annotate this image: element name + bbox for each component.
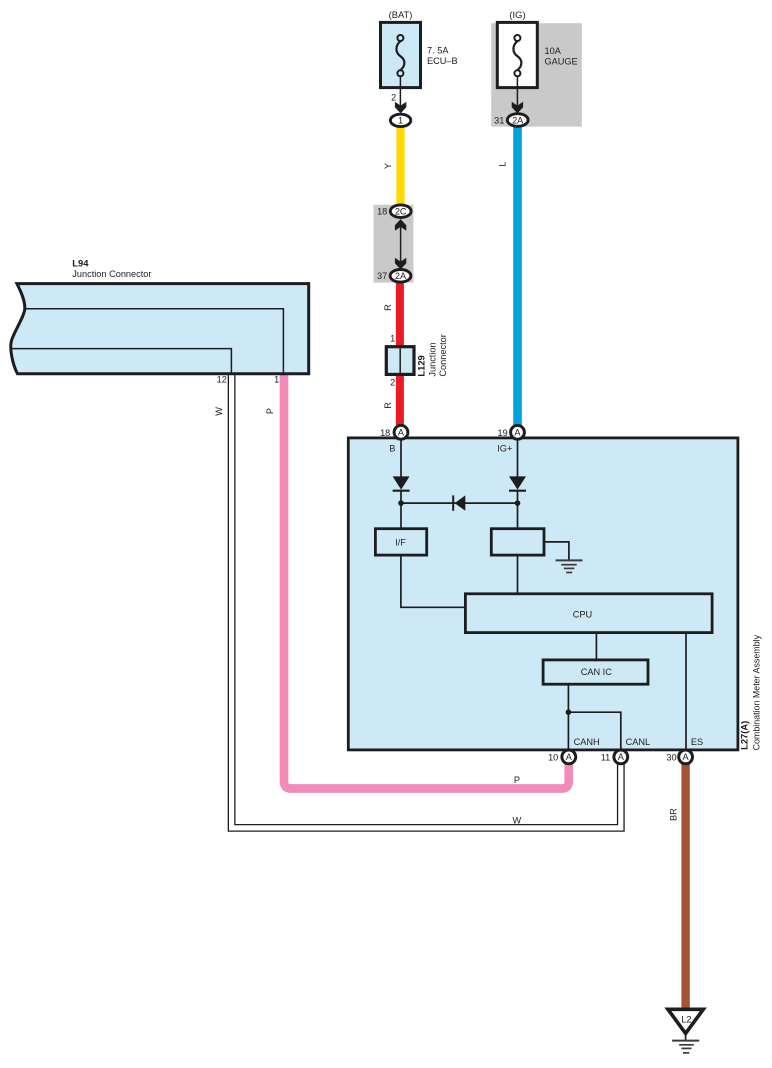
svg-text:10: 10: [548, 753, 558, 763]
junction dot right: [515, 500, 521, 506]
svg-text:W: W: [512, 816, 521, 826]
svg-text:B: B: [389, 443, 395, 453]
svg-text:19: 19: [497, 428, 507, 438]
wire regulator to CPU: [517, 555, 519, 594]
svg-text:Connector: Connector: [438, 334, 448, 376]
svg-text:BR: BR: [669, 808, 679, 821]
fuse GAUGE (IG): [497, 9, 577, 88]
svg-text:CANL: CANL: [626, 737, 651, 747]
block CPU: [465, 594, 712, 633]
svg-text:31: 31: [494, 115, 504, 125]
wire W (white, L94 pin 12 to meter pin 11): [232, 375, 621, 828]
connector 2A (IG): [507, 114, 528, 127]
svg-text:11: 11: [601, 753, 611, 763]
connector 1 (ellipse): [390, 114, 410, 126]
svg-text:CPU: CPU: [573, 609, 592, 619]
junction connector L94: [11, 257, 309, 384]
svg-text:GAUGE: GAUGE: [545, 56, 578, 66]
svg-text:2A: 2A: [512, 115, 524, 125]
svg-text:Combination Meter Assembly: Combination Meter Assembly: [752, 634, 762, 750]
arrow into connector 2A: [512, 102, 523, 114]
pin 30 connector A: [666, 750, 692, 764]
svg-text:(BAT): (BAT): [389, 9, 413, 20]
L94 internal bus to pin 1: [25, 309, 284, 374]
wire P (pink, L94 pin 1 to meter pin 10): [284, 375, 569, 789]
svg-text:ES: ES: [691, 737, 703, 747]
svg-text:1: 1: [398, 116, 403, 126]
svg-text:P: P: [514, 775, 520, 785]
block regulator (unlabeled): [491, 529, 544, 555]
arrow into connector 1: [395, 102, 406, 114]
svg-text:7. 5A: 7. 5A: [427, 46, 449, 56]
svg-text:12: 12: [217, 375, 227, 385]
connector 2A (splice): [390, 270, 411, 283]
double arrow between 2C and 2A: [395, 219, 406, 269]
svg-text:30: 30: [666, 753, 676, 763]
diode D2 (under pin 19): [509, 476, 526, 490]
wire fuse IG output: [516, 76, 518, 106]
connector 2C: [390, 205, 411, 218]
cross wire between branches: [401, 502, 518, 504]
svg-text:10A: 10A: [545, 46, 562, 56]
pin 11 connector A: [601, 750, 628, 764]
wire CPU to ES pin: [685, 633, 687, 750]
svg-text:Y: Y: [383, 163, 393, 169]
wire I/F to CPU: [401, 555, 466, 607]
wire R (red, splice 2A to meter pin 18): [396, 282, 404, 428]
wire diode D1 to I/F: [400, 491, 402, 529]
combination meter assembly L27(A) box: [348, 438, 738, 750]
fuse ECU-B (BAT): [381, 9, 458, 88]
svg-text:Junction: Junction: [427, 342, 437, 376]
svg-text:2A: 2A: [395, 271, 407, 281]
svg-text:A: A: [398, 428, 405, 438]
wire fuse BAT output: [399, 76, 401, 106]
node IG+ wire (pin 19 down to diode): [517, 438, 519, 477]
ground L2: [668, 1009, 703, 1053]
svg-text:R: R: [383, 402, 393, 409]
svg-text:2: 2: [390, 378, 395, 388]
svg-text:Junction Connector: Junction Connector: [72, 269, 151, 279]
svg-text:37: 37: [377, 271, 387, 281]
svg-text:2C: 2C: [395, 207, 407, 217]
svg-text:A: A: [566, 752, 573, 762]
svg-text:18: 18: [380, 428, 390, 438]
svg-text:L: L: [497, 162, 507, 167]
svg-text:A: A: [618, 752, 625, 762]
wire branch to CANL pin: [568, 712, 620, 750]
svg-text:ECU–B: ECU–B: [427, 56, 458, 66]
svg-text:R: R: [383, 304, 393, 311]
node B wire (pin 18 down to diode): [400, 438, 402, 477]
svg-text:1: 1: [274, 375, 279, 385]
gray harness block (2C/2A splice background): [374, 205, 414, 283]
wire Y (yellow, fuse ECU-B to splice 2C): [396, 127, 404, 207]
block I/F: [375, 529, 426, 555]
svg-text:L94: L94: [72, 257, 89, 268]
wire CAN IC to CANH pin: [567, 684, 569, 750]
svg-text:CAN IC: CAN IC: [581, 667, 613, 677]
L94 internal bus to pin 12: [11, 349, 231, 374]
pin 10 connector A: [548, 750, 576, 764]
wire BR (brown, meter pin 30 to ground L2): [681, 764, 689, 1009]
svg-text:A: A: [683, 752, 690, 762]
svg-text:CANH: CANH: [574, 737, 600, 747]
pin 18 connector A: [380, 425, 408, 439]
pin 19 connector A: [497, 425, 524, 439]
block CAN IC: [543, 660, 648, 684]
svg-text:18: 18: [377, 206, 387, 216]
svg-text:I/F: I/F: [395, 537, 406, 547]
wire diode D2 to regulator box: [517, 491, 519, 529]
svg-text:W: W: [214, 407, 224, 416]
internal ground branch: [544, 542, 583, 573]
junction dot left: [398, 500, 404, 506]
svg-text:L27(A): L27(A): [739, 721, 750, 750]
svg-text:IG+: IG+: [497, 443, 512, 453]
svg-text:L129: L129: [416, 355, 427, 376]
svg-text:(IG): (IG): [509, 9, 525, 20]
svg-text:2: 2: [391, 93, 396, 103]
svg-text:L2: L2: [681, 1015, 691, 1025]
wire CPU to CAN IC: [595, 633, 597, 660]
gray harness block (IG fuse background): [491, 23, 582, 126]
diode D3 (cross, pointing left): [453, 495, 465, 510]
junction dot CAN: [566, 709, 572, 715]
wire L (blue, fuse GAUGE to meter pin 19): [513, 126, 522, 427]
svg-text:1: 1: [390, 333, 395, 343]
svg-text:P: P: [265, 408, 275, 414]
junction connector L129: [386, 333, 448, 387]
svg-text:A: A: [514, 428, 521, 438]
diode D1 (under pin 18): [393, 476, 410, 490]
